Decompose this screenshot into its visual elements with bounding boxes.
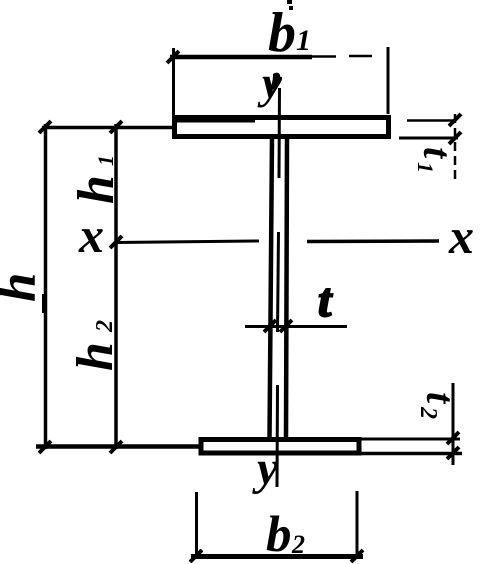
tick h2 bottom xyxy=(110,441,122,453)
label b2 xyxy=(266,507,305,563)
tick h1 h2 middle xyxy=(110,236,122,248)
svg-text:x: x xyxy=(78,207,104,263)
tick h top xyxy=(39,121,51,133)
axis x (horizontal centerline) xyxy=(117,241,439,243)
dimension line h1 h2 xyxy=(114,124,118,449)
svg-text:h: h xyxy=(68,175,125,204)
tick h1 top xyxy=(110,121,122,133)
extension line top left xyxy=(42,126,172,130)
dimension b2 xyxy=(190,491,363,562)
tick h bottom xyxy=(39,441,51,453)
bottom flange xyxy=(201,440,359,454)
svg-text:b: b xyxy=(266,507,292,563)
label y top xyxy=(257,58,283,108)
svg-text:2: 2 xyxy=(415,406,441,419)
svg-text:2: 2 xyxy=(291,530,305,559)
b1 riser right xyxy=(387,47,390,114)
dimension t (web) xyxy=(245,320,347,332)
svg-text:t: t xyxy=(418,392,463,405)
label h2 xyxy=(67,320,124,371)
svg-text:2: 2 xyxy=(92,320,118,333)
svg-text:h: h xyxy=(67,342,124,371)
label b1 xyxy=(268,0,311,64)
label h1 xyxy=(68,155,125,204)
tick b1 left xyxy=(167,51,179,63)
svg-text:1: 1 xyxy=(413,162,438,173)
label t1 xyxy=(413,147,460,173)
b1 riser left xyxy=(172,48,175,116)
label t2 xyxy=(415,392,463,419)
svg-text:t: t xyxy=(415,147,460,160)
svg-text:b: b xyxy=(268,2,296,64)
dimension t1 xyxy=(399,114,461,182)
web xyxy=(270,138,288,438)
dimension t2 xyxy=(358,383,462,465)
svg-text:y: y xyxy=(252,442,279,495)
svg-text:x: x xyxy=(448,208,474,264)
svg-text:t: t xyxy=(318,274,333,327)
dimension line h xyxy=(45,124,46,449)
svg-text:1: 1 xyxy=(93,155,118,166)
top flange xyxy=(175,118,389,137)
axis y (vertical centerline) xyxy=(277,88,280,487)
svg-text:h: h xyxy=(0,273,47,302)
svg-text:1: 1 xyxy=(296,24,311,57)
extension line bottom left xyxy=(36,444,200,449)
dimension b1 line xyxy=(170,56,372,57)
